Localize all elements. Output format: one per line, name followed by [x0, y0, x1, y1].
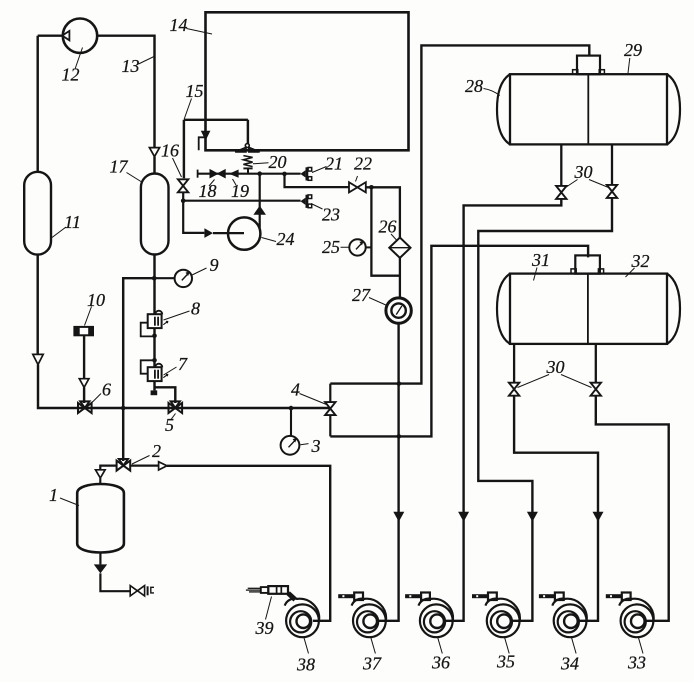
wire vessel 11 down — [36, 255, 38, 355]
valve 22 — [349, 182, 366, 192]
node main drop / filling line B — [397, 434, 402, 439]
svg-text:38: 38 — [296, 655, 315, 675]
burner 33 — [621, 604, 654, 637]
svg-text:21: 21 — [325, 154, 343, 174]
svg-text:25: 25 — [322, 237, 340, 257]
leader label 30 lower right — [561, 375, 592, 388]
tank 28-29 hatch — [577, 56, 600, 75]
valve 30 right of tank 31-32 — [591, 383, 601, 396]
leader label 13 — [139, 57, 155, 65]
svg-text:28: 28 — [465, 76, 483, 96]
bracket under arrow — [199, 137, 206, 150]
svg-text:4: 4 — [291, 380, 300, 400]
svg-text:37: 37 — [362, 654, 382, 674]
wire check valve to receiver 17 — [153, 157, 155, 175]
wire into tank 1 — [99, 478, 101, 484]
torch 39 duct — [288, 593, 295, 599]
pump 24 — [228, 217, 260, 249]
leader label 16 — [173, 158, 182, 177]
leader label 30 lower left — [518, 375, 550, 388]
tank 1 — [77, 484, 124, 553]
wire tank 28-29 left outlet — [560, 144, 562, 186]
leader label 15 — [184, 99, 191, 120]
leader label 31 — [534, 268, 538, 281]
leader label 39 — [266, 597, 272, 620]
leader label 18 — [209, 180, 215, 187]
relief valve 20 spring — [243, 156, 252, 167]
leader label 24 — [262, 238, 277, 242]
leader label 27 — [369, 298, 386, 306]
leader label 8 — [164, 311, 190, 320]
wire gauge 27 to burner 37 — [376, 323, 398, 621]
leader label 7 — [164, 367, 177, 375]
wire to burner 33 — [596, 396, 669, 621]
burner 33 nozzle — [622, 593, 631, 601]
svg-text:13: 13 — [122, 56, 140, 76]
svg-text:31: 31 — [531, 250, 550, 270]
svg-text:1: 1 — [49, 485, 58, 505]
wire filter 26 to gauge 27 — [399, 258, 401, 298]
gauge 3 — [281, 436, 300, 455]
wire valve 2 left — [100, 466, 116, 470]
node main header / gauge 3 branch — [289, 406, 294, 411]
leader label 4 — [300, 394, 327, 405]
burner 35 — [487, 604, 520, 637]
flow arrow to burner 37 — [393, 512, 404, 522]
branch wire to valve 22 — [285, 174, 350, 187]
svg-text:17: 17 — [110, 157, 129, 177]
tank 28-29 divider — [587, 74, 589, 144]
svg-text:15: 15 — [186, 81, 204, 101]
flow arrow to burner 34 — [593, 512, 604, 522]
fitting 23 — [300, 198, 305, 205]
bypass bracket of regulator 8 — [141, 323, 155, 337]
svg-text:22: 22 — [354, 154, 372, 174]
drain valve with plug — [130, 586, 137, 596]
svg-text:12: 12 — [62, 65, 80, 85]
wire gauge 25 loop — [371, 187, 400, 275]
svg-text:26: 26 — [379, 217, 397, 237]
wire arrow to pump center — [213, 232, 244, 234]
svg-text:6: 6 — [102, 380, 111, 400]
distribution header wire — [198, 173, 301, 175]
leader label 26 — [391, 234, 397, 240]
leader label 28 — [484, 89, 500, 96]
tank 31-32 hatch — [575, 255, 600, 273]
burner 38 — [286, 604, 319, 637]
check valve on left riser — [33, 354, 43, 364]
tank 31-32 right head — [667, 274, 680, 344]
burner 34 nozzle — [555, 593, 564, 601]
vessel 11 — [24, 172, 51, 255]
flow arrow into pump — [204, 228, 213, 238]
svg-text:23: 23 — [322, 205, 340, 225]
leader label 20 — [253, 163, 269, 164]
valve 30 left of tank 31-32 — [509, 383, 519, 396]
leader label 17 — [127, 173, 143, 183]
wire below regulator 7 — [153, 381, 155, 390]
node valve 16 outlet — [181, 198, 186, 203]
receiver vessel 17 — [141, 174, 169, 255]
wire filter branch — [366, 187, 400, 238]
wire tank 1 drain — [99, 553, 101, 565]
apparatus box 14 — [206, 12, 409, 150]
check valve above tank 1 — [96, 470, 106, 478]
wire tank 31-32 left outlet — [513, 344, 515, 383]
valve 6 three-way — [78, 403, 92, 413]
gauge 25 — [349, 239, 365, 255]
bypass bracket of regulator 7 — [141, 360, 155, 373]
flow arrow drain — [94, 564, 107, 573]
wire check valve to valve 6 — [83, 387, 85, 403]
leader label 14 — [187, 29, 213, 35]
leader label 22 — [356, 176, 358, 182]
wire tank 31-32 right outlet — [595, 344, 597, 383]
svg-text:29: 29 — [624, 40, 642, 60]
leader label 30 upper left — [564, 180, 578, 189]
wire left riser from header — [36, 36, 38, 172]
node after valve 22 — [369, 185, 374, 190]
leader label 37 — [371, 638, 376, 654]
wire branch to valve 5 — [155, 387, 176, 403]
burner 35 nozzle — [488, 593, 497, 601]
wire bypass branch left — [123, 278, 154, 461]
svg-text:30: 30 — [574, 162, 593, 182]
solenoid 10 — [74, 327, 93, 335]
header end cap — [197, 170, 199, 178]
svg-text:7: 7 — [178, 354, 188, 374]
regulator 8 — [148, 314, 162, 328]
leader label 29 — [628, 58, 630, 73]
node above regulator 7 — [152, 358, 157, 363]
leader label 5 — [171, 414, 176, 420]
valve 30 left of tank 28-29 — [556, 186, 566, 199]
filter 26 — [389, 238, 410, 258]
wire valve 2 to burner 38 line — [130, 465, 158, 467]
leader label 35 — [505, 638, 510, 654]
tank 28-29 left head — [497, 74, 510, 144]
svg-text:2: 2 — [152, 441, 161, 461]
leader label 33 — [639, 638, 644, 654]
regulator 7 — [148, 367, 162, 381]
wire to burner 34 — [514, 396, 598, 621]
flow arrow to burner 36 — [458, 512, 469, 522]
burner 37 — [353, 604, 386, 637]
tank 31-32 shell — [510, 274, 667, 344]
leader label 23 — [311, 204, 323, 210]
svg-text:36: 36 — [431, 653, 450, 673]
svg-text:11: 11 — [64, 212, 81, 232]
wire to gauge 9 — [154, 277, 174, 279]
gauge 3 branch wire — [290, 408, 292, 436]
flow arrow on box 14 left edge — [201, 131, 211, 141]
check valve above valve 6 — [79, 379, 89, 388]
gauge 9 — [175, 270, 192, 287]
svg-text:35: 35 — [496, 652, 515, 672]
tank 28-29 shell — [510, 74, 667, 144]
svg-text:19: 19 — [231, 181, 249, 201]
burner 36 nozzle — [421, 593, 430, 601]
leader label 10 — [85, 307, 92, 326]
burner 36 — [420, 604, 453, 637]
gauge 27 — [386, 298, 411, 323]
valve 30 right of tank 28-29 — [607, 185, 617, 198]
valve 4 — [325, 402, 335, 415]
flow arrow up on pump riser — [253, 206, 266, 215]
wire top-left header — [38, 34, 63, 36]
svg-text:30: 30 — [546, 357, 565, 377]
valve 16 — [178, 179, 188, 192]
compressor U12 — [63, 19, 97, 53]
pump riser wire — [259, 174, 261, 229]
svg-text:18: 18 — [199, 181, 217, 201]
leader label 36 — [438, 638, 443, 654]
leader label 2 — [132, 456, 150, 465]
wire to burner 35 — [478, 198, 612, 621]
svg-text:3: 3 — [311, 436, 321, 456]
wire compressor 12 to line 13 — [97, 36, 154, 148]
svg-text:27: 27 — [352, 285, 371, 305]
leader label 19 — [233, 179, 237, 185]
svg-text:16: 16 — [161, 141, 179, 161]
leader label 9 — [191, 268, 207, 276]
svg-text:24: 24 — [277, 229, 295, 249]
svg-text:32: 32 — [631, 251, 650, 271]
leader label 34 — [572, 638, 577, 654]
leader label 12 — [75, 48, 82, 69]
fitting at compressor 12 inlet — [62, 31, 69, 40]
svg-text:10: 10 — [87, 290, 105, 310]
check arrow 19 — [229, 170, 239, 178]
check valve after valve 2 — [159, 462, 167, 470]
leader label 38 — [304, 638, 309, 654]
filling wire to tank 31-32 — [330, 246, 588, 437]
torch 39 tip — [261, 587, 269, 593]
leader label 30 upper right — [589, 180, 609, 188]
wire drain elbow — [100, 573, 130, 591]
svg-text:8: 8 — [191, 299, 200, 319]
torch 39 body — [268, 586, 288, 594]
node main header / tank 1 branch — [121, 406, 126, 411]
relief funnel of valve 20 — [245, 144, 249, 148]
node main drop / filling line A — [397, 381, 402, 386]
valve 5 three-way — [169, 403, 183, 413]
svg-text:39: 39 — [255, 618, 274, 638]
node header / valve 22 branch — [282, 172, 287, 177]
wire gauge 25 stub — [366, 246, 372, 248]
node header / pump riser — [257, 171, 262, 176]
unit 15 outline — [184, 120, 248, 178]
wire regulator 8 to regulator 7 — [153, 328, 155, 367]
svg-text:9: 9 — [210, 255, 219, 275]
tank 31-32 divider — [587, 274, 589, 344]
wire solenoid 10 down — [83, 335, 85, 378]
closed port under regulator 7 — [151, 390, 158, 395]
svg-text:14: 14 — [170, 15, 188, 35]
wire valve 16 to pump 24 — [183, 192, 204, 233]
node below regulator 8 — [152, 334, 157, 339]
tank 31-32 left head — [497, 274, 510, 344]
leader label 21 — [312, 167, 327, 173]
valve 2 three-way — [117, 461, 131, 471]
fitting 21 — [300, 170, 305, 177]
svg-text:20: 20 — [269, 152, 287, 172]
svg-text:33: 33 — [627, 653, 646, 673]
leader label 6 — [92, 394, 102, 404]
filling wire to tank 28-29 — [330, 45, 589, 383]
leader label 1 — [60, 498, 79, 506]
wire tank 28-29 right outlet — [611, 144, 613, 185]
wire left riser to main header — [38, 365, 330, 408]
leader label 32 — [626, 268, 635, 277]
wire to burner 36 — [443, 199, 561, 621]
burner 37 nozzle — [354, 593, 363, 601]
leader label 11 — [52, 227, 66, 238]
check valve above receiver 17 — [149, 148, 159, 157]
wire to burner 38 — [167, 466, 330, 621]
burner 34 — [554, 604, 587, 637]
wire receiver 17 down — [153, 255, 155, 315]
leader label 25 — [341, 246, 349, 248]
tank 28-29 right head — [667, 74, 680, 144]
lower header to fitting 23 — [183, 200, 300, 202]
svg-text:34: 34 — [560, 654, 579, 674]
node receiver line / gauge 9 — [152, 276, 157, 281]
valve 18 — [210, 170, 225, 178]
leader label 3 — [301, 444, 309, 445]
flow arrow to burner 35 — [527, 512, 538, 522]
